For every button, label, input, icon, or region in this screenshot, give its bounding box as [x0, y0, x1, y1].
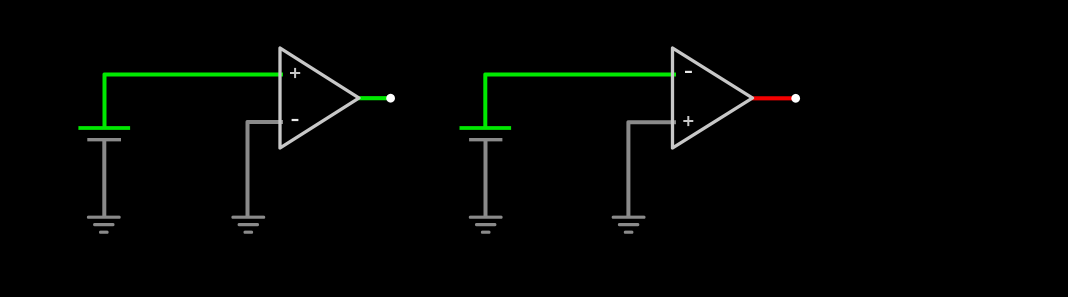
- op-amp OP2 inverting input label -: [685, 71, 692, 73]
- op-amp OP1 inverting input label -: [292, 119, 299, 121]
- voltage source V2 positive plate: [460, 126, 512, 130]
- voltage source V2 negative plate: [469, 138, 502, 141]
- voltage source V1 negative plate: [87, 138, 121, 141]
- op-amp OP2: [673, 48, 753, 148]
- voltage source V1 positive plate: [78, 126, 130, 130]
- ground G4: [613, 217, 644, 232]
- wire: battery V1 positive terminal to op-amp OP1 non-inverting input: [105, 75, 284, 128]
- wire: op-amp OP2 non-inverting input to ground G4: [628, 122, 676, 216]
- node: OP2 output post: [791, 94, 800, 103]
- wire: V1 negative terminal to ground G1: [102, 140, 106, 216]
- wire: OP2 output to output post: [750, 96, 796, 100]
- op-amp OP1: [280, 48, 359, 148]
- op-amp OP2 non-inverting input label +: [683, 116, 693, 126]
- op-amp OP1 non-inverting input label +: [290, 68, 300, 78]
- wire: V2 negative terminal to ground G3: [484, 140, 488, 216]
- wire: op-amp OP1 inverting input to ground G2: [248, 122, 284, 216]
- ground G1: [89, 217, 120, 232]
- node: OP1 output post: [386, 94, 395, 103]
- ground G3: [470, 217, 501, 232]
- ground G2: [233, 217, 264, 232]
- wire: OP1 output to output post: [357, 96, 391, 100]
- wire: battery V2 positive terminal to op-amp OP2 inverting input: [485, 75, 676, 128]
